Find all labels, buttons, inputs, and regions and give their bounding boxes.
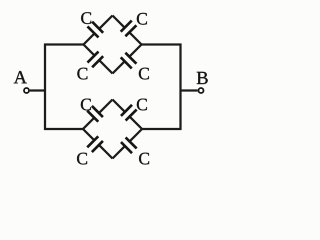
capacitor C1 (top bridge, upper-left) xyxy=(84,16,113,45)
node A terminal label xyxy=(14,71,27,83)
capacitor C4 (top bridge, lower-right) xyxy=(113,45,142,74)
capacitor C8 (bottom bridge, lower-right) xyxy=(113,129,143,159)
node A terminal circle xyxy=(24,88,29,93)
value label C1 (top bridge, upper-left) = C xyxy=(81,12,91,24)
capacitor C6 (bottom bridge, upper-right) xyxy=(113,100,143,130)
wire left bus to top bridge left node xyxy=(44,43,83,45)
value label C6 (bottom bridge, upper-right) = C xyxy=(137,99,147,111)
value label C3 (top bridge, lower-left) = C xyxy=(77,68,87,80)
value label C8 (bottom bridge, lower-right) = C xyxy=(139,153,149,165)
node B terminal label xyxy=(197,72,208,84)
capacitor C3 (top bridge, lower-left) xyxy=(84,45,113,74)
left bus wire (vertical) xyxy=(44,44,46,130)
capacitor C7 (bottom bridge, lower-left) xyxy=(83,129,113,159)
wire top bridge right node to right bus xyxy=(142,43,182,45)
node B terminal circle xyxy=(199,88,204,93)
capacitor C5 (bottom bridge, upper-left) xyxy=(83,100,113,130)
value label C4 (top bridge, lower-right) = C xyxy=(139,68,149,80)
value label C5 (bottom bridge, upper-left) = C xyxy=(81,99,91,111)
wire bottom bridge right node to right bus xyxy=(142,128,181,130)
value label C2 (top bridge, upper-right) = C xyxy=(137,13,147,25)
wire left bus to bottom bridge left node xyxy=(44,128,83,130)
capacitor C2 (top bridge, upper-right) xyxy=(113,16,142,45)
wire from A to left bus xyxy=(30,89,46,91)
wire from right bus to B xyxy=(181,89,198,91)
right bus wire (vertical) xyxy=(179,44,181,130)
value label C7 (bottom bridge, lower-left) = C xyxy=(77,153,87,165)
